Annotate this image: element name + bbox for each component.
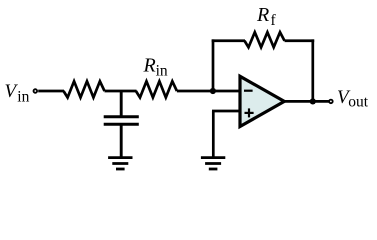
label Vin [5,81,30,106]
wire R1 to Rin (through cap tap node) [105,90,137,93]
op-amp U1 triangle [240,76,284,126]
wire cap branch down from main wire [120,91,123,117]
svg-text:in: in [17,89,29,106]
svg-text:out: out [348,94,369,111]
node: feedback tap junction dot [210,88,216,94]
label Rin [143,54,168,79]
svg-text:in: in [156,63,168,80]
wire capacitor to ground [120,124,123,157]
svg-text:f: f [271,12,277,29]
svg-text:R: R [143,54,156,76]
wire feedback vertical down to output [311,39,314,101]
resistor R1 [64,81,105,97]
output terminal (open circle) [329,100,333,104]
wire feedback vertical up from tap [212,39,215,92]
input terminal (open circle) [34,89,38,93]
capacitor C1 bottom plate [104,123,139,126]
wire op-amp output [283,100,329,103]
wire feedback top left segment [212,39,245,42]
node: output junction dot [310,98,316,104]
op-amp inverting input minus sign [244,90,253,92]
wire non-inverting input to ground branch [212,110,240,113]
resistor Rf [245,32,285,47]
label Vout [337,87,369,111]
capacitor C1 top plate [104,115,139,118]
op-amp non-inverting input plus sign [245,108,254,117]
wire Rin to op-amp inverting input [177,90,240,93]
resistor Rin [136,81,177,97]
label Rf [256,4,277,29]
ground (capacitor) [108,158,132,169]
wire ground branch vertical [212,111,215,158]
wire input terminal to R1 [38,90,64,93]
ground (op-amp non-inverting input) [201,158,225,169]
svg-text:R: R [256,4,269,26]
wire feedback top right segment [285,39,315,42]
